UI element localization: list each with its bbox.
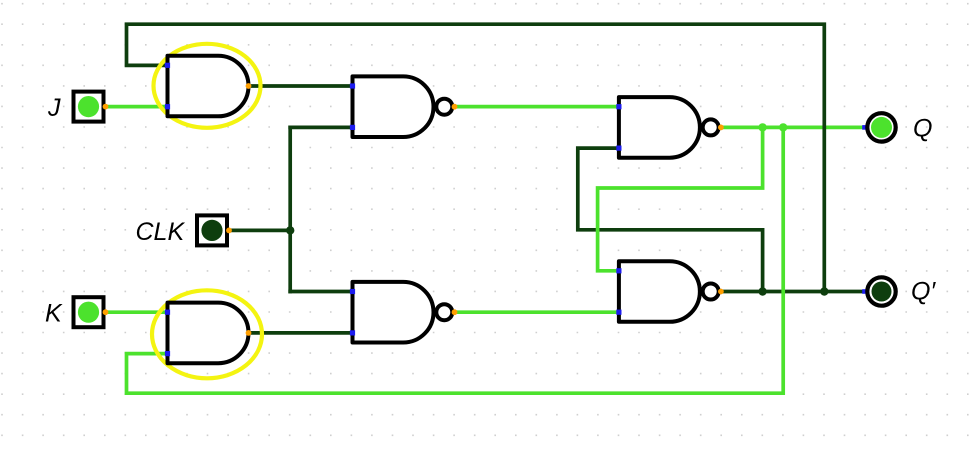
- svg-text:CLK: CLK: [136, 218, 186, 246]
- svg-text:J: J: [47, 94, 61, 122]
- svg-text:Q: Q: [913, 115, 932, 143]
- svg-text:Q′: Q′: [911, 277, 936, 305]
- svg-text:K: K: [45, 300, 63, 328]
